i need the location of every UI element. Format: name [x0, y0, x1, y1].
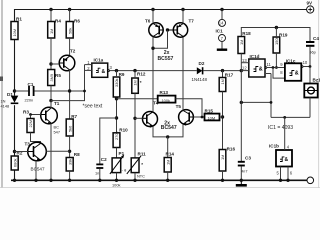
svg-text:11: 11 [267, 62, 272, 67]
wire R9 to R13 [117, 98, 158, 100]
svg-text:4n7: 4n7 [241, 169, 248, 174]
svg-text:1n: 1n [95, 171, 99, 176]
svg-text:NTC: NTC [137, 174, 145, 179]
capacitor C3 4n7 [238, 156, 252, 183]
capacitor C1 220n [15, 82, 85, 103]
svg-text:&: & [102, 69, 106, 75]
svg-text:R14: R14 [166, 152, 175, 157]
node R15 right [221, 115, 224, 118]
node T6 base tie [166, 28, 169, 31]
svg-text:1M: 1M [220, 79, 225, 84]
node T2-C1 [68, 89, 71, 92]
ground symbol [236, 180, 247, 185]
nand gate IC1a [85, 58, 117, 78]
wire C2 branch [100, 118, 117, 164]
frame border bottom [0, 186, 320, 188]
svg-text:5k6: 5k6 [67, 126, 72, 132]
wire T6-T4 collector line [152, 48, 154, 112]
thermistor R11 NTC [127, 152, 146, 183]
node C2 branch [115, 116, 118, 119]
svg-text:IC1 = 4093: IC1 = 4093 [268, 125, 293, 131]
diode D2 1N4148 [192, 61, 242, 82]
resistor R2 [11, 151, 23, 171]
resistor R16 [219, 147, 235, 183]
node T5 base / R15 [201, 116, 204, 119]
resistor R14 [164, 152, 174, 183]
resistor R8 [66, 152, 80, 182]
svg-text:T7: T7 [189, 19, 195, 24]
svg-text:330k: 330k [114, 79, 119, 87]
svg-text:R4: R4 [55, 19, 61, 24]
svg-text:R16: R16 [227, 147, 236, 152]
resistor R5 [48, 70, 62, 108]
svg-text:BC547: BC547 [161, 125, 177, 131]
svg-text:14: 14 [219, 21, 224, 26]
node IC1d input [240, 69, 243, 72]
transistor T6 BC557 (base right) [145, 10, 163, 49]
svg-text:R18: R18 [242, 31, 251, 36]
svg-text:R1: R1 [16, 17, 22, 22]
terminal 0V [307, 177, 314, 184]
resistor R7 [66, 114, 77, 158]
svg-text:C4: C4 [313, 36, 319, 41]
node IC1d out [272, 66, 275, 69]
transistor T1 BC547 [41, 101, 60, 182]
resistor R18 [238, 31, 251, 71]
svg-text:10: 10 [303, 60, 308, 65]
node T1 collector [49, 99, 52, 102]
svg-text:39k: 39k [67, 159, 72, 165]
wire C4 top loop [241, 28, 310, 42]
svg-text:12: 12 [242, 66, 247, 71]
svg-text:&: & [295, 71, 299, 77]
svg-text:R10: R10 [119, 128, 128, 133]
svg-text:&: & [285, 157, 289, 163]
resistor R12 [132, 71, 146, 158]
nand gate IC1b [269, 117, 293, 182]
svg-text:T5: T5 [176, 104, 182, 109]
node rail-R6 [68, 8, 71, 11]
svg-text:IC1a: IC1a [94, 58, 104, 63]
svg-text:R13: R13 [160, 90, 169, 95]
svg-text:220n: 220n [25, 98, 34, 103]
battery + terminal 9V [307, 0, 314, 13]
wire top supply rail [15, 10, 307, 22]
svg-text:IC1: IC1 [216, 29, 224, 34]
resistor R10 [113, 128, 128, 158]
transistor T7 BC557 (base left) [168, 10, 195, 38]
svg-text:1M: 1M [133, 80, 138, 85]
svg-text:R12: R12 [137, 71, 146, 76]
svg-text:1M: 1M [239, 40, 244, 45]
svg-text:*: * [141, 162, 143, 167]
node C3 branch [240, 101, 243, 104]
svg-text:T4: T4 [153, 101, 159, 106]
svg-text:C3: C3 [245, 156, 251, 161]
node rail-IC1 supply [220, 8, 223, 11]
svg-text:IC1b: IC1b [269, 144, 279, 149]
capacitor C2 1n [95, 157, 107, 182]
wire T4/T5 emitters to R14 [153, 124, 183, 137]
wire left bus [14, 40, 16, 96]
resistor R4 [48, 10, 62, 70]
node R17 top [221, 69, 224, 72]
svg-text:100k: 100k [112, 183, 120, 188]
svg-text:BC547: BC547 [31, 167, 45, 172]
svg-text:BC557: BC557 [158, 56, 174, 62]
svg-text:- θ: - θ [122, 168, 127, 173]
wire IC1a input loop [51, 65, 85, 101]
svg-text:C2: C2 [101, 157, 107, 162]
wire buzzer bottom Z [241, 101, 271, 103]
svg-text:T2: T2 [70, 49, 76, 54]
resistor R3 [23, 110, 41, 144]
svg-text:10M: 10M [208, 115, 216, 120]
transistor T5 BC547 (mirrored) [176, 104, 205, 126]
svg-text:*see text: *see text [83, 104, 103, 110]
frame border right [318, 0, 320, 188]
wire IC1a output net [117, 70, 197, 72]
svg-text:D2: D2 [199, 61, 205, 66]
transistor T2 (BC557 pnp) [51, 49, 76, 120]
node C1 branch [13, 89, 16, 92]
svg-text:T6: T6 [145, 19, 151, 24]
nand gate IC1c [280, 58, 310, 81]
node T3 collector junction [68, 150, 71, 153]
transistor T4 BC547 [135, 101, 159, 128]
svg-text:R11: R11 [138, 152, 147, 157]
svg-text:22M: 22M [28, 120, 33, 128]
node IC1c out [309, 65, 312, 68]
capacitor C4 56p [306, 36, 319, 67]
wire T7-T5 collector line [182, 37, 184, 110]
svg-text:1N4148: 1N4148 [192, 77, 208, 82]
node T2 base [49, 62, 52, 65]
svg-text:10M: 10M [12, 29, 17, 37]
svg-text:547: 547 [54, 130, 61, 135]
svg-text:&: & [259, 67, 263, 73]
resistor R9 [113, 71, 125, 133]
svg-text:100k: 100k [162, 98, 170, 103]
node R9 bottom [115, 97, 118, 100]
svg-text:3M9: 3M9 [49, 74, 54, 82]
transistor T3 BC547 [15, 142, 70, 183]
svg-text:R6: R6 [74, 19, 80, 24]
resistor R6 [66, 10, 80, 56]
svg-text:*: * [140, 80, 142, 85]
svg-text:4148: 4148 [1, 104, 10, 109]
diode D1 [1, 92, 19, 109]
bottom ground rail [11, 179, 307, 181]
svg-text:T1: T1 [54, 101, 60, 106]
IC1 supply block [216, 10, 228, 50]
buzzer Bz1 [304, 78, 320, 118]
node T4 base [133, 117, 136, 120]
svg-text:9V: 9V [307, 0, 314, 5]
frame border left [1, 0, 3, 188]
svg-text:R8: R8 [74, 152, 80, 157]
preset P1 100k [110, 151, 125, 188]
wire pin8 jog [273, 68, 285, 79]
svg-text:270k: 270k [114, 132, 119, 140]
wire T6 collector to bases [153, 30, 168, 48]
node rail-T7 [181, 8, 184, 11]
svg-text:R7: R7 [71, 114, 77, 119]
resistor R15 [205, 109, 223, 121]
resistor R13 [158, 90, 202, 117]
svg-text:1M: 1M [220, 155, 225, 160]
resistor R1 [11, 17, 22, 40]
node rail-R4 [49, 8, 52, 11]
svg-text:Bz1: Bz1 [313, 78, 320, 83]
svg-text:R5: R5 [55, 73, 61, 78]
svg-text:1M: 1M [165, 160, 170, 165]
svg-text:R9: R9 [119, 72, 125, 77]
svg-text:680k: 680k [12, 159, 17, 167]
node T3 base [13, 150, 16, 153]
svg-text:R3: R3 [23, 110, 29, 115]
svg-text:1M: 1M [49, 29, 54, 34]
resistor R19 [273, 28, 288, 69]
node rail-T6 [151, 8, 154, 11]
wire IC1d input bus [240, 71, 242, 161]
svg-text:150k: 150k [274, 37, 279, 45]
resistor R17 [219, 71, 233, 150]
svg-text:56k: 56k [68, 28, 73, 34]
nand gate IC1d [241, 54, 285, 77]
